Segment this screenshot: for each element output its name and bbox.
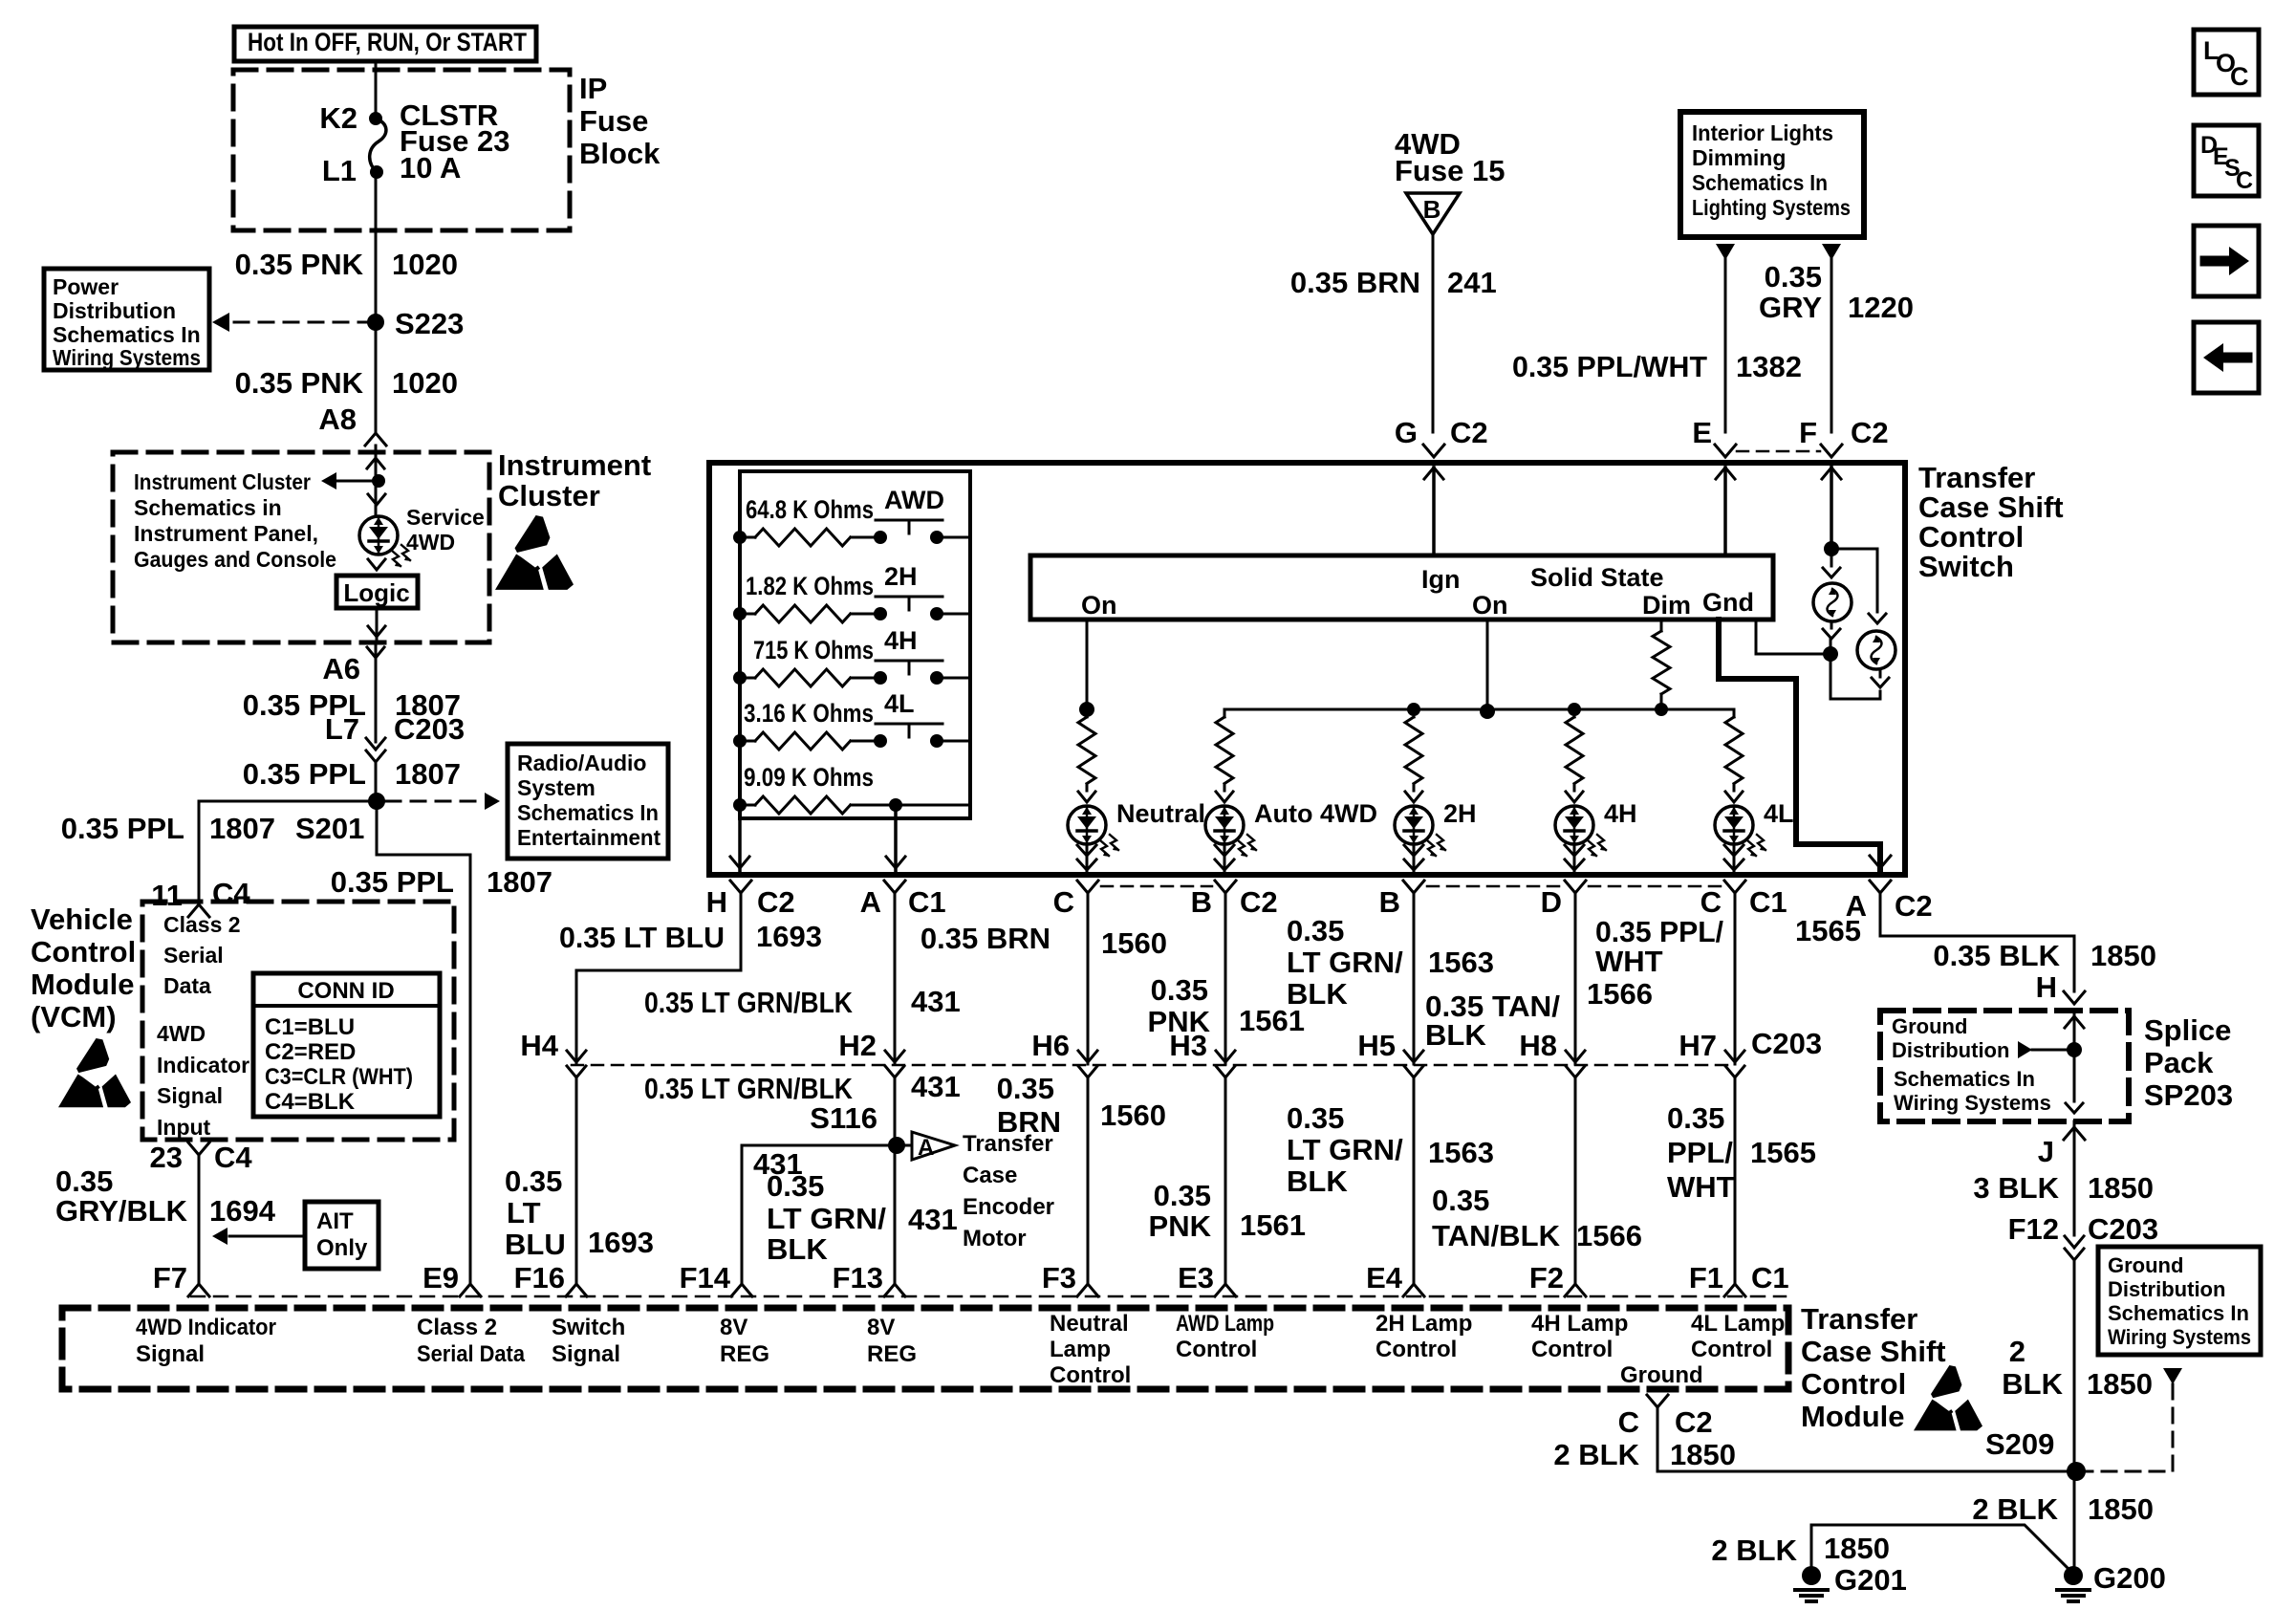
note box: Radio/Audio System Schematics In Entertainment (508, 744, 668, 859)
svg-text:2 BLK: 2 BLK (1972, 1492, 2058, 1526)
svg-text:C2: C2 (1240, 885, 1278, 919)
ESD symbol VCM (58, 1038, 131, 1107)
svg-text:2H: 2H (1443, 799, 1477, 828)
Logic box (336, 559, 418, 641)
wire 0.35 LT GRN/BLK 1563 (H5 to E4) (1287, 1077, 1494, 1284)
svg-text:H: H (2036, 970, 2057, 1004)
svg-text:REG: REG (867, 1341, 917, 1367)
connector F2 at module top (1529, 1261, 1586, 1296)
svg-text:C2=RED: C2=RED (265, 1039, 356, 1065)
wire 0.35 BRN 241 (fuse to G C2) (1290, 234, 1497, 432)
title Splice Pack SP203 (2144, 1013, 2233, 1112)
svg-text:A6: A6 (322, 652, 360, 685)
svg-text:Case Shift: Case Shift (1918, 490, 2064, 524)
wire 0.35 TAN/BLK 1566 (D to H8) (1425, 893, 1653, 1055)
title Instrument Cluster (498, 448, 651, 512)
svg-text:8V: 8V (720, 1315, 747, 1340)
svg-text:H2: H2 (838, 1029, 877, 1062)
svg-text:AWD Lamp: AWD Lamp (1176, 1311, 1274, 1337)
title Transfer Case Shift Control Module (1801, 1302, 1946, 1433)
wire 2 BLK 1850 branch to G201 (1711, 1525, 2070, 1571)
svg-text:H7: H7 (1679, 1029, 1717, 1062)
svg-text:Auto 4WD: Auto 4WD (1254, 799, 1377, 828)
svg-text:Class 2: Class 2 (163, 912, 241, 937)
svg-text:Schematics In: Schematics In (1894, 1067, 2035, 1091)
svg-text:C3=CLR (WHT): C3=CLR (WHT) (265, 1064, 413, 1090)
svg-text:L7: L7 (325, 712, 359, 746)
note Ground Distribution Schematics In Wiring Systems (splice pack) (1892, 1014, 2051, 1115)
wire 0.35 GRY/BLK 1694 (VCM to F7) (55, 1155, 276, 1284)
wire 0.35 BRN 1560 (H6 to F3) (997, 1072, 1166, 1284)
svg-text:4WD: 4WD (406, 530, 455, 555)
connector E4 at module top (1366, 1261, 1424, 1296)
module pin label 4L Lamp Control (1691, 1311, 1785, 1362)
svg-text:Vehicle: Vehicle (31, 903, 133, 936)
svg-text:0.35: 0.35 (767, 1169, 824, 1203)
svg-text:C2: C2 (1675, 1405, 1713, 1439)
svg-text:Pack: Pack (2144, 1046, 2214, 1079)
svg-text:Signal: Signal (157, 1083, 223, 1108)
svg-text:64.8 K Ohms: 64.8 K Ohms (746, 495, 874, 524)
svg-text:F1: F1 (1689, 1261, 1723, 1295)
resistor 3.16 K Ohms row (733, 699, 970, 750)
svg-text:BLK: BLK (767, 1232, 828, 1266)
wire Neutral LED to connector (1077, 844, 1096, 875)
svg-text:G201: G201 (1834, 1563, 1907, 1597)
svg-text:0.35: 0.35 (1667, 1101, 1724, 1135)
connector A C1 exit (860, 881, 946, 919)
VCM text 4WD Indicator Signal Input (157, 1021, 249, 1140)
svg-text:1563: 1563 (1428, 1136, 1494, 1169)
svg-text:Hot In OFF, RUN, Or START: Hot In OFF, RUN, Or START (248, 28, 527, 56)
svg-text:(VCM): (VCM) (31, 1000, 117, 1033)
svg-text:0.35 LT BLU: 0.35 LT BLU (559, 921, 725, 954)
svg-text:715 K Ohms: 715 K Ohms (753, 636, 874, 664)
connector H into splice pack (2064, 991, 2085, 1004)
svg-text:0.35 PPL/: 0.35 PPL/ (1595, 915, 1723, 948)
title Vehicle Control Module (VCM) (31, 903, 136, 1033)
splice pack internal wire and arrow (2018, 1011, 2084, 1113)
Gnd pin heavy wire to A C2 exit (1719, 620, 1891, 875)
svg-text:4H Lamp: 4H Lamp (1531, 1311, 1628, 1337)
svg-text:Splice: Splice (2144, 1013, 2231, 1047)
svg-text:BLK: BLK (2002, 1367, 2063, 1401)
svg-text:WHT: WHT (1595, 945, 1663, 978)
svg-text:Schematics In: Schematics In (2108, 1301, 2249, 1325)
svg-text:1566: 1566 (1576, 1219, 1642, 1252)
LED Auto 4WD indicator (1205, 799, 1377, 857)
svg-text:4H: 4H (1604, 799, 1637, 828)
svg-text:Distribution: Distribution (1892, 1038, 2009, 1062)
label IP Fuse Block (579, 72, 661, 170)
svg-text:Ground: Ground (1620, 1362, 1703, 1388)
svg-text:Fuse: Fuse (579, 104, 648, 138)
svg-text:Transfer: Transfer (1801, 1302, 1917, 1336)
svg-text:A: A (860, 885, 881, 919)
wire 0.35 PPL 1807 (A6 to L7) (243, 642, 461, 742)
svg-text:Encoder: Encoder (963, 1194, 1054, 1220)
svg-text:C: C (2236, 167, 2253, 194)
wire 0.35 PNK 1020 (fuse to S223) (235, 172, 458, 322)
svg-text:GRY/BLK: GRY/BLK (55, 1194, 188, 1228)
svg-text:Indicator: Indicator (157, 1053, 249, 1077)
svg-text:F: F (1799, 416, 1817, 449)
illumination lamp 1 (1813, 583, 1852, 621)
connector crossing H2 at C203 (838, 1029, 904, 1077)
svg-text:Serial: Serial (163, 943, 224, 968)
svg-text:C2: C2 (1895, 889, 1933, 923)
svg-text:Motor: Motor (963, 1226, 1027, 1251)
svg-text:241: 241 (1447, 266, 1497, 299)
svg-text:F14: F14 (680, 1261, 731, 1295)
resistor 64.8 K Ohms row (733, 495, 970, 546)
wire 0.35 PNK 1020 (S223 to A8) (235, 322, 458, 436)
wire resistor network to H exit (730, 818, 749, 875)
svg-text:Data: Data (163, 973, 211, 998)
svg-text:C2: C2 (1450, 416, 1488, 449)
svg-text:Ground: Ground (2108, 1253, 2183, 1277)
svg-text:1020: 1020 (392, 366, 458, 400)
svg-text:1694: 1694 (209, 1194, 276, 1228)
svg-text:Signal: Signal (552, 1341, 620, 1367)
svg-text:4WD: 4WD (157, 1021, 206, 1046)
svg-text:C: C (1053, 885, 1074, 919)
illumination lamp 2 (1857, 631, 1895, 669)
svg-text:C2: C2 (757, 885, 795, 919)
ground G201 (1795, 1563, 1907, 1601)
svg-text:Solid State: Solid State (1530, 563, 1664, 592)
wire 4H LED to connector (1565, 844, 1584, 875)
svg-text:F12: F12 (2008, 1212, 2059, 1246)
svg-text:8V: 8V (867, 1315, 895, 1340)
svg-text:H6: H6 (1031, 1029, 1070, 1062)
svg-text:C1: C1 (1749, 885, 1787, 919)
svg-text:Control: Control (1375, 1337, 1457, 1362)
svg-text:TAN/BLK: TAN/BLK (1432, 1219, 1561, 1252)
wire C C2 ground from module to S209 (2 BLK 1850) (1553, 1395, 2076, 1471)
svg-text:F3: F3 (1042, 1261, 1076, 1295)
svg-text:L1: L1 (322, 154, 357, 187)
svg-text:10 A: 10 A (400, 151, 461, 185)
svg-text:Input: Input (157, 1115, 211, 1140)
wire 0.35 LT GRN/BLK 431 to S116 (644, 1070, 961, 1284)
svg-text:H5: H5 (1357, 1029, 1396, 1062)
wire: hot feed into fuse (375, 61, 378, 115)
svg-text:Instrument Panel,: Instrument Panel, (134, 521, 318, 546)
svg-text:C: C (1700, 885, 1722, 919)
svg-text:BLK: BLK (1287, 1164, 1348, 1198)
wire and left arrow inside cluster (321, 452, 385, 516)
illumination lamp wiring from F (1823, 463, 1840, 577)
svg-text:Ign: Ign (1421, 565, 1461, 594)
svg-text:CONN ID: CONN ID (297, 978, 394, 1004)
svg-text:1220: 1220 (1848, 291, 1914, 324)
svg-text:C: C (1618, 1405, 1639, 1439)
svg-text:1850: 1850 (2088, 1171, 2154, 1205)
svg-text:Dimming: Dimming (1692, 145, 1786, 170)
wire Auto 4WD LED to connector (1215, 844, 1234, 875)
svg-text:0.35 BRN: 0.35 BRN (921, 922, 1051, 955)
svg-text:PPL/: PPL/ (1667, 1136, 1733, 1169)
connector C exit (neutral lamp) (1053, 881, 1212, 919)
switch contact 4L (876, 689, 942, 737)
connector B C2 exit (AWD lamp) (1191, 881, 1278, 919)
module pin label 8V REG (F13) (867, 1315, 917, 1367)
LED 2H indicator (1395, 799, 1477, 857)
svg-text:Lamp: Lamp (1050, 1337, 1111, 1362)
svg-text:Schematics in: Schematics in (134, 495, 282, 520)
svg-text:Schematics In: Schematics In (517, 800, 659, 825)
module pin label 8V REG (F14) (720, 1315, 769, 1367)
svg-text:Switch: Switch (1918, 550, 2014, 583)
connector E9 at module top (422, 1261, 481, 1296)
title Transfer Case Shift Control Switch (1918, 461, 2064, 583)
svg-text:9.09 K Ohms: 9.09 K Ohms (744, 763, 874, 792)
svg-text:PNK: PNK (1149, 1209, 1212, 1243)
svg-text:E3: E3 (1178, 1261, 1214, 1295)
svg-text:4WD Indicator: 4WD Indicator (136, 1315, 276, 1340)
connector G C2 on switch top (1395, 416, 1488, 457)
svg-text:E9: E9 (422, 1261, 459, 1295)
wire 0.35 PNK 1561 (B to H3) (1148, 893, 1305, 1055)
Transfer Case Shift Control Module dashed box (62, 1308, 1788, 1389)
svg-text:LT GRN/: LT GRN/ (767, 1202, 886, 1235)
switch contact 2H (876, 562, 942, 610)
svg-text:BLU: BLU (505, 1228, 566, 1261)
svg-text:GRY: GRY (1759, 291, 1822, 324)
svg-text:0.35: 0.35 (1287, 914, 1344, 947)
svg-text:2 BLK: 2 BLK (1711, 1534, 1797, 1567)
module pin label 4H Lamp Control (1531, 1311, 1628, 1362)
wire 0.35 BRN 1560 (C to H6) (921, 893, 1167, 1055)
svg-text:E4: E4 (1366, 1261, 1403, 1295)
svg-text:0.35: 0.35 (55, 1164, 113, 1198)
svg-text:Radio/Audio: Radio/Audio (517, 751, 646, 775)
svg-text:LT: LT (507, 1196, 541, 1229)
splice S209 (1985, 1427, 2086, 1481)
svg-text:B: B (1423, 195, 1441, 224)
svg-text:Entertainment: Entertainment (517, 825, 661, 850)
svg-text:0.35: 0.35 (997, 1072, 1054, 1105)
svg-text:4L: 4L (884, 689, 915, 718)
wire 0.35 PPL 1807 (C203 to S201) (243, 757, 461, 801)
svg-text:1560: 1560 (1101, 926, 1167, 960)
module pin label 2H Lamp Control (1375, 1311, 1472, 1362)
svg-text:Control: Control (1176, 1337, 1257, 1362)
svg-text:1807: 1807 (487, 865, 552, 899)
svg-text:On: On (1472, 591, 1508, 620)
svg-text:K2: K2 (319, 101, 357, 135)
resistor 9.09 K Ohms row (733, 763, 970, 814)
svg-text:0.35: 0.35 (505, 1164, 562, 1198)
svg-text:Case: Case (963, 1163, 1017, 1188)
connector E3 at module top (1178, 1261, 1236, 1296)
label 431 on F13 wire (908, 1203, 958, 1236)
svg-text:1850: 1850 (2088, 1492, 2154, 1526)
svg-text:1807: 1807 (395, 757, 461, 791)
svg-text:1563: 1563 (1428, 946, 1494, 979)
svg-text:431: 431 (911, 1070, 961, 1103)
svg-text:C: C (2230, 62, 2249, 91)
connector F16 at module top (514, 1261, 587, 1296)
module pin label Ground (1620, 1362, 1703, 1388)
splice S223 (367, 307, 464, 340)
Transfer Case Shift Control Switch box (709, 463, 1905, 875)
splice S201 and dashed arrow to radio note (295, 793, 500, 845)
svg-text:BLK: BLK (1425, 1018, 1486, 1052)
module pin label 4WD Indicator Signal (136, 1315, 276, 1367)
svg-text:AIT: AIT (316, 1208, 354, 1234)
svg-text:S201: S201 (295, 812, 364, 845)
connector crossing H8 at C203 (1519, 1029, 1585, 1077)
svg-text:4H: 4H (884, 626, 918, 655)
svg-text:F16: F16 (514, 1261, 565, 1295)
svg-text:0.35 PPL: 0.35 PPL (331, 865, 454, 899)
svg-text:Instrument Cluster: Instrument Cluster (134, 469, 311, 494)
connector F14 at module top (680, 1261, 752, 1296)
svg-text:Cluster: Cluster (498, 479, 600, 512)
svg-text:0.35 BRN: 0.35 BRN (1290, 266, 1420, 299)
svg-text:F2: F2 (1529, 1261, 1564, 1295)
svg-text:Service: Service (406, 505, 485, 530)
svg-text:1850: 1850 (2090, 939, 2156, 972)
svg-text:Module: Module (31, 968, 135, 1001)
connector F13 at module top (833, 1261, 905, 1296)
svg-text:C1=BLU: C1=BLU (265, 1014, 355, 1040)
note box: Ground Distribution Schematics In Wiring Systems (bottom right) (2098, 1247, 2261, 1355)
svg-text:Wiring Systems: Wiring Systems (1894, 1091, 2051, 1115)
svg-text:431: 431 (908, 1203, 958, 1236)
wire F branch to lamp 2 (1831, 549, 1886, 623)
fuse CLSTR Fuse 23 10 A (319, 98, 509, 187)
svg-text:Wiring Systems: Wiring Systems (2108, 1325, 2251, 1349)
wire F 0.35 GRY 1220 (1759, 244, 1914, 432)
svg-text:E: E (1692, 416, 1712, 449)
splice S116 (888, 1137, 905, 1154)
Solid State box (1030, 555, 1773, 620)
svg-text:C203: C203 (2088, 1212, 2158, 1246)
svg-text:Only: Only (316, 1235, 368, 1261)
wire 431 from 9.09K to A exit (886, 805, 905, 875)
wire S116 branch to F14 (431, 0.35 LT GRN/BLK) (742, 1145, 897, 1284)
connector D exit (4H lamp) (1541, 881, 1722, 919)
Vehicle Control Module dashed box (142, 902, 454, 1140)
note box: Interior Lights Dimming Schematics In Lighting Systems (1680, 112, 1864, 237)
svg-text:1850: 1850 (1824, 1532, 1890, 1565)
svg-text:C1: C1 (908, 885, 946, 919)
wire E 0.35 PPL/WHT 1382 (1512, 244, 1802, 432)
svg-text:H8: H8 (1519, 1029, 1557, 1062)
svg-text:0.35: 0.35 (1765, 260, 1822, 294)
Gnd pin wiring to lamps (1756, 620, 1889, 699)
connector H C2 exit (706, 881, 795, 919)
svg-text:0.35: 0.35 (1151, 973, 1208, 1007)
connector crossing H3 at C203 (1169, 1029, 1235, 1077)
svg-text:23: 23 (150, 1141, 183, 1174)
svg-text:Lighting Systems: Lighting Systems (1692, 195, 1851, 220)
svg-text:0.35 BLK: 0.35 BLK (1933, 939, 2060, 972)
wire 0.35 LT GRN/BLK 431 (A to H2) (644, 893, 961, 1055)
svg-text:1565: 1565 (1750, 1136, 1816, 1169)
svg-text:H4: H4 (520, 1029, 558, 1062)
svg-text:A: A (918, 1135, 934, 1161)
svg-text:C203: C203 (1751, 1027, 1822, 1060)
svg-text:On: On (1081, 591, 1117, 620)
svg-text:F13: F13 (833, 1261, 883, 1295)
svg-text:C4: C4 (212, 877, 250, 910)
wire S201 to module pin E9 (0.35 PPL 1807) (331, 801, 552, 1284)
connector A C2 exit (ground) (1846, 881, 1933, 923)
svg-text:Control: Control (1691, 1337, 1772, 1362)
svg-text:C4: C4 (214, 1141, 252, 1174)
svg-text:C1: C1 (1751, 1261, 1789, 1295)
connector A6 below cluster (322, 647, 384, 685)
svg-text:S209: S209 (1985, 1427, 2054, 1461)
LED Neutral indicator (1068, 799, 1205, 857)
switch contact AWD (876, 486, 944, 533)
svg-text:REG: REG (720, 1341, 769, 1367)
DESC button box (2194, 125, 2259, 196)
module pin label Neutral Lamp Control (1050, 1311, 1131, 1388)
svg-text:Control: Control (1918, 520, 2024, 554)
connector L7 C203 (325, 712, 465, 762)
connector C C1 exit (4L lamp) (1700, 881, 1787, 919)
svg-text:C2: C2 (1851, 416, 1889, 449)
wire S201 to VCM pin 11 (0.35 PPL 1807) (61, 801, 377, 912)
wire 0.35 LT BLU 1693 (H to H4) (559, 893, 822, 1055)
connector crossing H5 at C203 (1357, 1029, 1423, 1077)
connector A triangle transfer case encoder motor (905, 1131, 1054, 1251)
resistor network box (740, 471, 970, 818)
connector crossing H7 at C203 (1679, 1029, 1744, 1077)
svg-text:Class 2: Class 2 (417, 1315, 497, 1340)
IP Fuse Block dashed box (233, 70, 570, 230)
wire 0.35 PPL/WHT 1565 (C to H7) (1595, 893, 1861, 1055)
svg-text:4L: 4L (1764, 799, 1794, 828)
svg-text:Signal: Signal (136, 1341, 205, 1367)
ground G200 (2057, 1561, 2166, 1601)
ESD symbol instrument cluster (495, 515, 574, 590)
connector F3 at module top (1042, 1261, 1098, 1296)
svg-text:C4=BLK: C4=BLK (265, 1089, 356, 1115)
svg-text:BRN: BRN (997, 1105, 1061, 1139)
svg-text:Control: Control (1801, 1367, 1906, 1401)
svg-text:Gauges and Console: Gauges and Console (134, 547, 336, 572)
svg-text:BLK: BLK (1287, 977, 1348, 1011)
svg-text:1850: 1850 (2087, 1367, 2153, 1401)
LED 4L indicator (1715, 799, 1794, 857)
svg-text:Transfer: Transfer (1918, 461, 2035, 494)
svg-text:Schematics In: Schematics In (53, 322, 201, 347)
svg-text:1565: 1565 (1795, 914, 1861, 947)
resistor above 2H LED (1405, 709, 1422, 802)
wire 3 BLK 1850 (J to F12) (1973, 1121, 2154, 1235)
svg-text:Switch: Switch (552, 1315, 625, 1340)
svg-text:S223: S223 (395, 307, 464, 340)
wire 0.35 TAN/BLK 1566 (H8 to F2) (1432, 1077, 1642, 1284)
svg-text:1561: 1561 (1240, 1208, 1306, 1242)
label: Hot In OFF, RUN, Or START (234, 27, 536, 61)
svg-text:2H Lamp: 2H Lamp (1375, 1311, 1472, 1337)
svg-text:431: 431 (911, 985, 961, 1018)
wire 2H LED to connector (1404, 844, 1423, 875)
connector B exit (2H lamp) (1379, 881, 1562, 919)
svg-text:Instrument: Instrument (498, 448, 651, 482)
svg-text:Ground: Ground (1892, 1014, 1967, 1038)
connector A8 into instrument cluster (365, 433, 386, 452)
connector B triangle 4WD Fuse 15 (1395, 127, 1505, 234)
svg-text:Schematics In: Schematics In (1692, 170, 1828, 195)
